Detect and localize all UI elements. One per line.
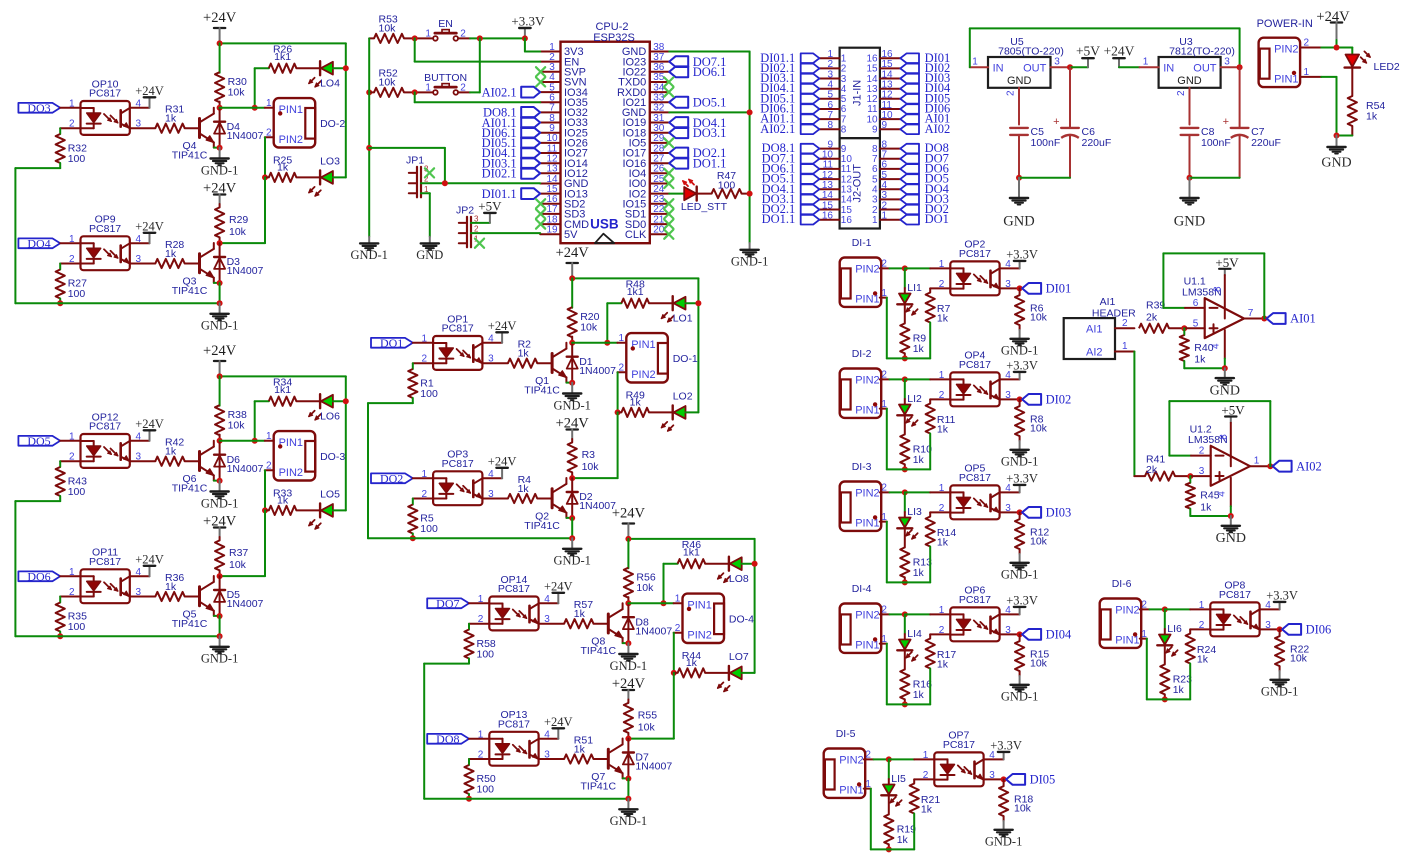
resistor R7 1k xyxy=(905,288,951,358)
svg-text:1N4007: 1N4007 xyxy=(579,365,616,377)
resistor R31 1k xyxy=(130,104,200,133)
LED LO5 xyxy=(309,488,341,529)
wire opto pin2 B xyxy=(60,596,80,598)
svg-text:100: 100 xyxy=(718,180,736,192)
svg-text:10k: 10k xyxy=(582,461,600,473)
svg-text:16: 16 xyxy=(822,211,834,222)
junction emitter node B xyxy=(217,280,223,286)
wire node A to PIN1 xyxy=(572,333,626,344)
resistor R29 10k xyxy=(215,204,248,243)
wire opto pin3 xyxy=(1000,398,1020,400)
svg-text:PC817: PC817 xyxy=(959,359,991,371)
wire +24V top bus xyxy=(572,276,698,412)
svg-text:R3: R3 xyxy=(582,449,596,461)
ground GND-1 channel xyxy=(985,821,1023,849)
svg-text:1k: 1k xyxy=(1194,354,1206,366)
wire PIN2 drop xyxy=(617,362,626,412)
svg-text:LO4: LO4 xyxy=(320,78,340,90)
svg-text:1k: 1k xyxy=(165,446,177,458)
connector DI-3 xyxy=(840,482,882,531)
svg-text:2: 2 xyxy=(1304,38,1310,49)
svg-text:PIN1: PIN1 xyxy=(1274,74,1298,86)
junction C8 gnd node xyxy=(1187,175,1193,181)
svg-text:100: 100 xyxy=(420,523,438,535)
junction LED branch on node A wire xyxy=(604,340,610,346)
ground GND U1.1 xyxy=(1210,368,1240,398)
svg-text:100: 100 xyxy=(477,784,495,796)
jumper JP2 xyxy=(456,204,479,247)
svg-text:10k: 10k xyxy=(1014,802,1032,814)
wire EN sw to 3V3 rail xyxy=(470,37,525,39)
pin6 wire xyxy=(1163,298,1204,309)
U1.1 output pin7 xyxy=(1244,308,1264,319)
svg-text:+: + xyxy=(1053,116,1059,128)
wire pin32 GND xyxy=(669,111,749,113)
svg-text:TIP41C: TIP41C xyxy=(172,483,208,495)
wire AI2 long rail xyxy=(1133,352,1135,477)
svg-text:TIP41C: TIP41C xyxy=(580,780,616,792)
svg-text:1: 1 xyxy=(1199,600,1205,611)
wire label to opto pin1 xyxy=(60,107,80,109)
junction U1.1 output xyxy=(1261,316,1267,322)
wire junction to opto pin1 xyxy=(905,378,951,380)
svg-text:DI04: DI04 xyxy=(1046,628,1072,642)
svg-text:GND-1: GND-1 xyxy=(553,398,591,412)
junction R100B bottom bus xyxy=(466,796,472,802)
optocoupler OP10 PC817 xyxy=(69,78,142,135)
svg-text:DO4: DO4 xyxy=(27,237,50,251)
ground GND-1 bottom channel xyxy=(201,303,239,332)
node DI-1 title xyxy=(852,237,872,249)
svg-text:+24V: +24V xyxy=(203,10,237,26)
wire opto pin2 xyxy=(413,362,433,364)
svg-text:USB: USB xyxy=(590,217,619,232)
wire opto pin3 xyxy=(984,778,1004,780)
svg-text:2: 2 xyxy=(881,483,887,494)
ground GND-1 bottom channel xyxy=(610,799,648,828)
junction JP1 net xyxy=(442,180,448,186)
svg-text:1: 1 xyxy=(619,333,625,344)
ground GND-1 left rail xyxy=(350,237,388,262)
svg-text:DO1.1: DO1.1 xyxy=(762,212,796,226)
svg-text:5: 5 xyxy=(1193,318,1199,329)
junction bus LED xyxy=(343,398,349,404)
svg-text:1N4007: 1N4007 xyxy=(635,625,672,637)
wire emitter node to gnd xyxy=(219,616,221,636)
wire PIN2 to junction xyxy=(864,750,889,761)
wire opto pin2 xyxy=(469,623,489,625)
junction emitter node xyxy=(569,380,575,386)
junction PIN2 node xyxy=(886,756,892,762)
junction U1.1 plus input xyxy=(1181,325,1187,331)
resistor R42 1k xyxy=(130,437,200,466)
resistor R21 1k xyxy=(889,779,941,849)
wire PIN1 to bottom node xyxy=(880,634,905,705)
svg-text:1: 1 xyxy=(923,750,929,761)
svg-text:LI1: LI1 xyxy=(907,282,922,294)
svg-text:2: 2 xyxy=(1006,90,1017,96)
pin2 wire xyxy=(1169,446,1210,457)
junction PIN2/R branch xyxy=(671,670,677,676)
junction bottom node xyxy=(886,846,892,852)
svg-text:10k: 10k xyxy=(229,226,247,238)
svg-text:PC817: PC817 xyxy=(89,421,121,433)
svg-text:AI1: AI1 xyxy=(1100,296,1116,308)
svg-text:DO6.1: DO6.1 xyxy=(693,65,727,79)
transistor Q4 TIP41C xyxy=(172,108,214,162)
resistor R44 1k xyxy=(674,650,729,678)
connector DO-3 xyxy=(274,431,346,480)
diode D1 1N4007 xyxy=(567,343,616,383)
svg-text:J1-IN: J1-IN xyxy=(852,80,864,106)
svg-text:LED_STT: LED_STT xyxy=(681,201,728,213)
junction bottom gnd node xyxy=(217,633,223,639)
ground GND-1 right leg xyxy=(731,243,769,269)
global label DO5 xyxy=(18,434,60,448)
resistor R1 100 xyxy=(408,363,438,403)
junction top +24V xyxy=(625,536,631,542)
svg-text:PC817: PC817 xyxy=(1219,589,1251,601)
svg-text:GND-1: GND-1 xyxy=(731,255,769,269)
power +3.3V xyxy=(511,14,545,39)
svg-text:+24V: +24V xyxy=(488,454,517,468)
svg-text:PC817: PC817 xyxy=(959,248,991,260)
power +24V DO5/DO6 bottom xyxy=(203,514,237,537)
connector DI-4 xyxy=(840,604,882,653)
wire opto pin2 B xyxy=(413,498,433,500)
svg-text:+3.3V: +3.3V xyxy=(1266,588,1298,602)
junction PIN2 node xyxy=(1162,606,1168,612)
svg-text:1k: 1k xyxy=(937,312,949,324)
wire PIN2 net to node B xyxy=(220,510,265,576)
svg-text:1k1: 1k1 xyxy=(274,384,291,396)
svg-text:+24V: +24V xyxy=(1104,44,1135,59)
resistor R48 1k1 xyxy=(607,279,672,343)
svg-text:PC817: PC817 xyxy=(442,323,474,335)
op-amp U1.1 LM358N xyxy=(1182,255,1244,368)
svg-text:PC817: PC817 xyxy=(498,719,530,731)
capacitor C8 100nF xyxy=(1181,126,1231,178)
junction bus LED xyxy=(752,561,758,567)
wire +24V top bus xyxy=(220,41,346,177)
svg-text:2: 2 xyxy=(939,390,945,401)
svg-text:220uF: 220uF xyxy=(1082,137,1112,149)
svg-text:1N4007: 1N4007 xyxy=(227,598,264,610)
junction top +24V xyxy=(217,40,223,46)
svg-text:GND: GND xyxy=(1007,75,1032,87)
svg-text:2k: 2k xyxy=(1146,464,1158,476)
ground GND under JP1 xyxy=(416,237,443,262)
svg-text:2: 2 xyxy=(881,605,887,616)
resistor R24 1k xyxy=(1165,629,1217,699)
svg-text:1k: 1k xyxy=(574,608,586,620)
svg-text:+3.3V: +3.3V xyxy=(1006,471,1038,485)
global label DO2 xyxy=(371,472,413,486)
svg-text:DI05: DI05 xyxy=(1030,773,1056,787)
svg-text:10k: 10k xyxy=(1290,652,1308,664)
svg-text:OUT: OUT xyxy=(1023,62,1047,74)
junction PIN2 node xyxy=(902,611,908,617)
resistor R34 1k1 xyxy=(255,377,320,441)
svg-text:DI-5: DI-5 xyxy=(836,728,856,740)
wire junction to opto pin1 xyxy=(1165,608,1211,610)
connector J1-IN xyxy=(840,48,880,138)
LED LI3 xyxy=(897,492,922,539)
junction pin3 node xyxy=(1017,396,1023,402)
node B junction xyxy=(217,573,223,579)
wire emitter to gnd node xyxy=(214,147,220,149)
wire R54 to gnd node xyxy=(1337,135,1353,137)
wire label to opto pin1 B xyxy=(413,477,433,479)
svg-text:10k: 10k xyxy=(1030,311,1048,323)
power +5V at JP2 xyxy=(471,198,502,223)
junction bottom node xyxy=(902,466,908,472)
svg-text:LO2: LO2 xyxy=(673,390,693,402)
junction emitter node B xyxy=(217,613,223,619)
resistor R8 10k xyxy=(1015,399,1048,441)
svg-text:J2-OUT: J2-OUT xyxy=(852,164,864,203)
LED LO7 xyxy=(717,651,749,692)
ground GND-1 top channel xyxy=(553,383,591,413)
resistor R33 1k xyxy=(265,487,320,515)
junction rail JP1 branch xyxy=(366,145,372,151)
wire R100A to left rail xyxy=(15,168,60,303)
global label DO6 xyxy=(18,570,60,584)
power +24V at OP3 pin4 xyxy=(482,454,516,478)
svg-text:R29: R29 xyxy=(229,214,248,226)
svg-text:R37: R37 xyxy=(229,547,248,559)
svg-text:AI02: AI02 xyxy=(925,122,951,136)
svg-text:1k: 1k xyxy=(165,113,177,125)
wire node A to PIN1 xyxy=(628,594,682,605)
svg-text:AI2: AI2 xyxy=(1086,346,1103,358)
svg-text:2: 2 xyxy=(939,279,945,290)
resistor R3 10k xyxy=(568,439,600,478)
svg-text:PIN2: PIN2 xyxy=(279,467,303,479)
optocoupler OP4 PC817 xyxy=(939,350,1012,407)
wire emitter B xyxy=(623,777,629,779)
svg-text:DI-2: DI-2 xyxy=(852,348,872,360)
wire emitter B xyxy=(214,282,220,284)
svg-text:DO7: DO7 xyxy=(436,597,459,611)
resistor R35 100 xyxy=(56,597,88,637)
svg-text:+3.3V: +3.3V xyxy=(990,738,1022,752)
svg-text:8: 8 xyxy=(1218,434,1229,440)
resistor R9 1k xyxy=(900,305,926,359)
svg-text:10k: 10k xyxy=(1030,422,1048,434)
wire opto pin2 xyxy=(60,127,80,129)
svg-text:2: 2 xyxy=(1122,318,1128,329)
connector DI-2 xyxy=(840,369,882,418)
junction emitter node xyxy=(217,478,223,484)
svg-text:DO5: DO5 xyxy=(27,434,50,448)
resistor R6 10k xyxy=(1015,288,1048,330)
svg-text:1k: 1k xyxy=(937,658,949,670)
ground GND U5 xyxy=(1003,178,1034,230)
junction bottom gnd node xyxy=(217,300,223,306)
junction 3.3V node xyxy=(522,35,528,41)
svg-text:PIN2: PIN2 xyxy=(839,754,863,766)
svg-text:AI02.1: AI02.1 xyxy=(482,85,517,99)
junction pin32 gnd xyxy=(747,109,753,115)
resistor R58 100 xyxy=(464,624,496,664)
LED LED2 xyxy=(1345,51,1400,73)
left ground rail xyxy=(368,38,370,236)
svg-text:2: 2 xyxy=(266,460,272,471)
power +5V main xyxy=(1070,44,1100,67)
U5 pin1 xyxy=(970,57,988,68)
junction PIN2 node xyxy=(902,376,908,382)
svg-text:1: 1 xyxy=(872,215,878,226)
svg-text:TIP41C: TIP41C xyxy=(580,645,616,657)
svg-text:DI-1: DI-1 xyxy=(852,237,872,249)
wire PIN2 drop xyxy=(674,623,683,673)
svg-text:DI03: DI03 xyxy=(1046,506,1072,520)
global label DI05 xyxy=(1006,773,1055,787)
junction pin3 node xyxy=(1001,776,1007,782)
MCU CPU-2 ESP32S xyxy=(561,21,650,243)
wire bottom bus xyxy=(368,537,572,539)
junction EN node xyxy=(412,35,418,41)
power +3.3V at OP5 pin4 xyxy=(1000,471,1038,492)
svg-text:1k: 1k xyxy=(913,343,925,355)
node A junction xyxy=(569,340,575,346)
transistor Q2 TIP41C xyxy=(524,478,566,532)
U3 pin2 xyxy=(1176,88,1190,125)
svg-text:LI5: LI5 xyxy=(891,773,906,785)
svg-text:EN: EN xyxy=(438,18,453,30)
wire emitter node to gnd xyxy=(627,779,629,799)
svg-text:1N4007: 1N4007 xyxy=(635,761,672,773)
diode D6 1N4007 xyxy=(214,441,263,481)
junction R100B bottom bus xyxy=(410,535,416,541)
svg-text:PIN2: PIN2 xyxy=(631,369,655,381)
junction PIN2/R branch xyxy=(615,409,621,415)
junction U1.2 plus input xyxy=(1187,473,1193,479)
U3 pin3 xyxy=(1221,57,1240,68)
junction R100B bottom bus xyxy=(57,633,63,639)
resistor R38 10k xyxy=(215,376,247,440)
junction U3 out xyxy=(1237,64,1243,70)
svg-text:DO-1: DO-1 xyxy=(673,353,698,365)
resistor R39 2k xyxy=(1139,300,1184,333)
svg-text:1k: 1k xyxy=(1197,653,1209,665)
svg-text:100: 100 xyxy=(68,153,86,165)
svg-text:2: 2 xyxy=(939,625,945,636)
power +24V mid xyxy=(1104,44,1140,67)
transistor Q8 TIP41C xyxy=(580,603,622,657)
svg-text:PIN1: PIN1 xyxy=(687,600,711,612)
svg-text:19: 19 xyxy=(546,225,558,236)
svg-text:10k: 10k xyxy=(379,76,397,88)
svg-text:100nF: 100nF xyxy=(1031,137,1061,149)
resistor R43 100 xyxy=(56,461,88,501)
global label DI04 xyxy=(1022,628,1072,642)
power +3.3V at OP2 pin4 xyxy=(1000,247,1038,268)
svg-text:LO1: LO1 xyxy=(673,313,693,325)
wire PIN1 to bottom node xyxy=(1140,629,1165,700)
wire bottom bus xyxy=(15,302,219,304)
resistor R20 10k xyxy=(568,278,600,342)
ground GND-1 top channel xyxy=(201,148,239,178)
svg-text:2: 2 xyxy=(266,127,272,138)
junction U1.2 gnd xyxy=(1228,513,1234,519)
svg-text:1: 1 xyxy=(266,98,272,109)
wire PIN2 to junction xyxy=(1140,600,1165,611)
svg-text:+24V: +24V xyxy=(135,417,164,431)
diode D7 1N4007 xyxy=(623,739,672,779)
ground GND-1 channel xyxy=(1261,671,1299,699)
power +3.3V at OP6 pin4 xyxy=(1000,593,1038,614)
junction emitter node xyxy=(625,640,631,646)
svg-text:PIN2: PIN2 xyxy=(1115,604,1139,616)
svg-text:1k: 1k xyxy=(1200,501,1212,513)
junction LED branch on node A wire xyxy=(661,600,667,606)
svg-text:1k: 1k xyxy=(913,567,925,579)
resistor R19 1k xyxy=(884,796,916,850)
svg-text:10k: 10k xyxy=(228,87,246,99)
wire junction to opto pin1 xyxy=(905,267,951,269)
svg-text:GND-1: GND-1 xyxy=(201,163,239,177)
wire opto pin3 xyxy=(1000,287,1020,289)
ground GND-1 top channel xyxy=(610,643,648,673)
wire PIN2 net to node B xyxy=(628,673,673,739)
wire emitter to gnd node xyxy=(214,480,220,482)
global label DO7 xyxy=(427,597,469,611)
svg-text:AI1: AI1 xyxy=(1086,324,1103,336)
svg-text:DO1.1: DO1.1 xyxy=(693,156,727,170)
svg-text:AI02: AI02 xyxy=(1296,459,1322,473)
svg-text:16: 16 xyxy=(841,215,853,226)
svg-text:100: 100 xyxy=(68,486,86,498)
LED LO1 xyxy=(661,296,693,325)
svg-text:10k: 10k xyxy=(379,22,397,34)
ground GND U3 xyxy=(1174,178,1205,230)
svg-text:LO5: LO5 xyxy=(320,488,340,500)
svg-text:+3.3V: +3.3V xyxy=(511,14,545,29)
wire label to opto pin1 xyxy=(413,342,433,344)
ground GND power xyxy=(1321,136,1351,171)
svg-text:3: 3 xyxy=(1224,57,1230,68)
wire node A to PIN1 xyxy=(220,98,274,109)
wire LED2 to bus xyxy=(686,411,699,413)
junction pin3 node xyxy=(1017,509,1023,515)
feedback wire U1.1 xyxy=(1163,253,1264,318)
svg-text:PIN1: PIN1 xyxy=(279,104,303,116)
svg-text:+24V: +24V xyxy=(488,319,517,333)
svg-text:LI4: LI4 xyxy=(907,628,922,640)
diode D3 1N4007 xyxy=(214,243,263,283)
svg-text:+24V: +24V xyxy=(544,715,573,729)
svg-text:2: 2 xyxy=(923,770,929,781)
resistor R26 1k1 xyxy=(255,44,320,108)
optocoupler OP8 PC817 xyxy=(1199,580,1272,637)
svg-text:GND: GND xyxy=(416,248,443,262)
no-connect JP1 pin3 xyxy=(425,168,434,177)
wire emitter B xyxy=(567,517,573,519)
resistor R55 10k xyxy=(624,700,657,739)
resistor R11 1k xyxy=(905,399,956,469)
svg-text:100: 100 xyxy=(68,621,86,633)
svg-text:1k: 1k xyxy=(921,803,933,815)
wire LED to bus xyxy=(333,67,346,69)
resistor R4 1k xyxy=(482,474,552,503)
svg-text:LI6: LI6 xyxy=(1167,623,1182,635)
power +24V at OP10 pin4 xyxy=(130,84,164,108)
node B junction xyxy=(569,475,575,481)
svg-text:+5V: +5V xyxy=(478,198,502,213)
junction BUTTON node xyxy=(412,89,418,95)
